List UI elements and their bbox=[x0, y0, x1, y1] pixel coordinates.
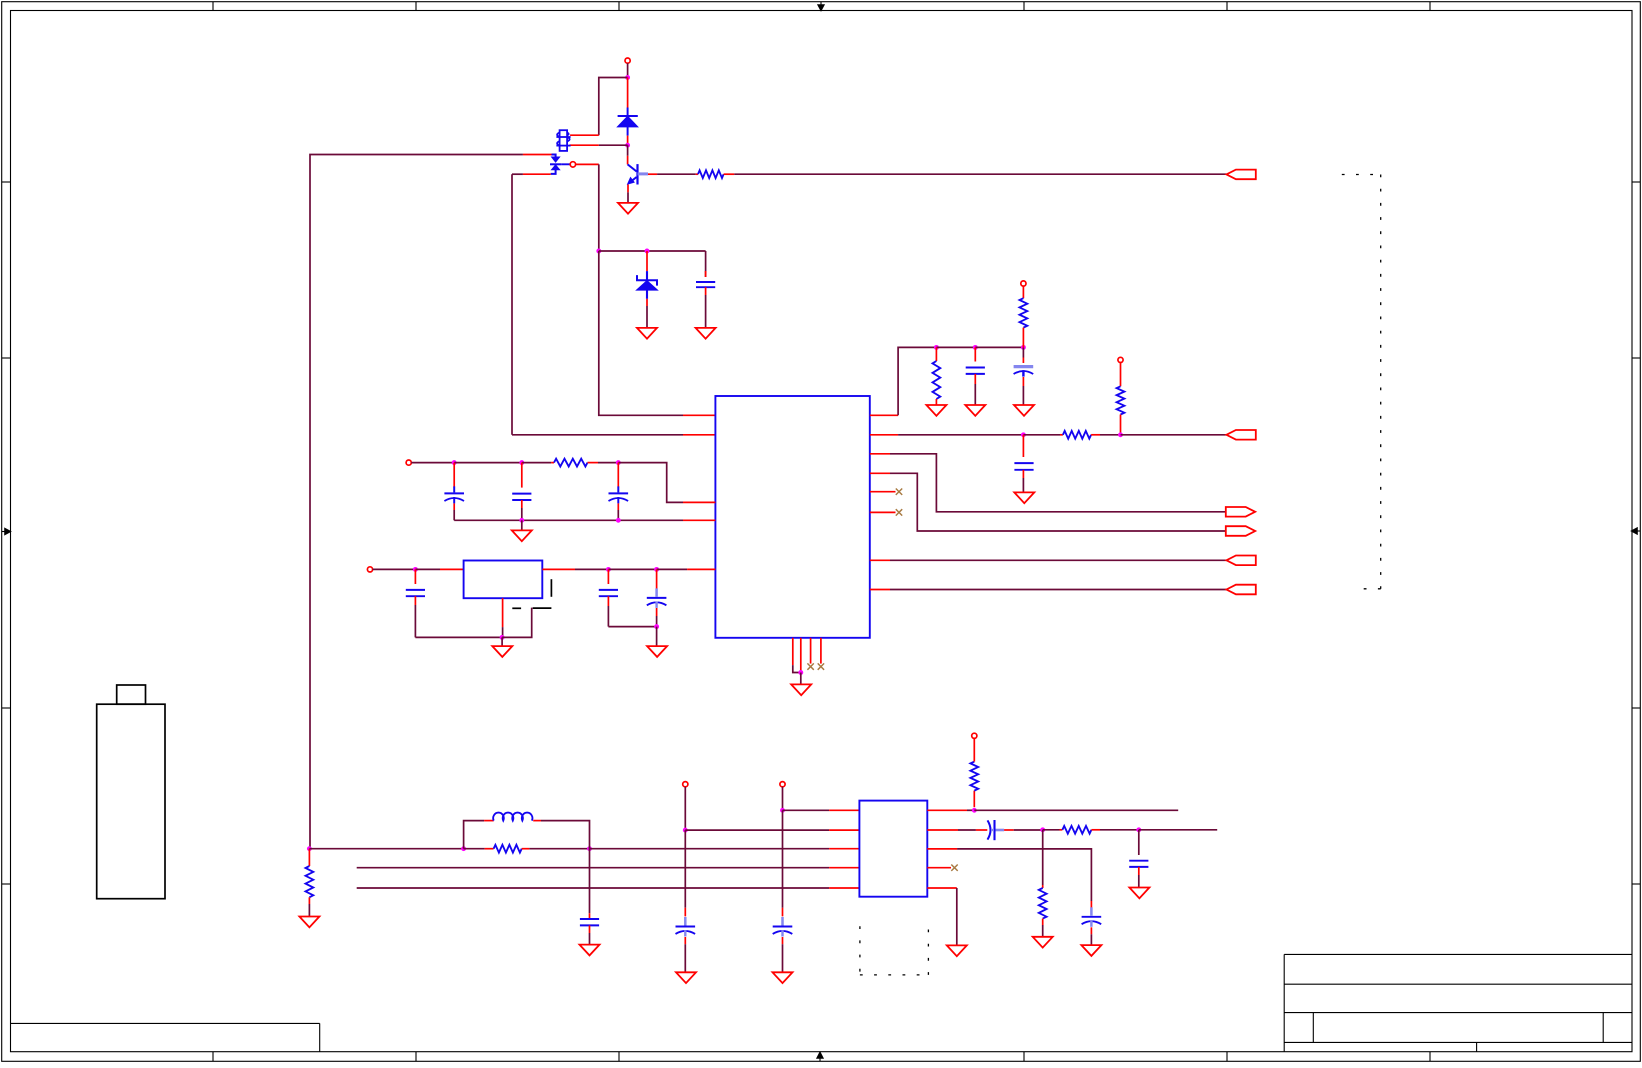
wire J10 to regulator VR1 bbox=[415, 568, 440, 570]
node J8 bbox=[519, 518, 524, 523]
wire C14 to node J27 bbox=[1014, 829, 1043, 831]
node J11 bbox=[606, 567, 611, 572]
wire TVS top net to far-left rail bbox=[310, 155, 523, 849]
node J7 bbox=[616, 460, 621, 465]
node J25 bbox=[780, 808, 785, 813]
capacitor C12 bbox=[684, 830, 686, 908]
wire U1 pin r8 to port PT6 bbox=[870, 589, 890, 591]
black tab mark 2 bbox=[533, 607, 552, 609]
ground GND11 bbox=[1014, 492, 1034, 503]
wire cap bottom rail to U1 pin 4 bbox=[454, 519, 683, 521]
wire J24 to U2 pin 2 bbox=[685, 829, 829, 831]
wire U2 pin r2 to C14 bbox=[927, 829, 958, 831]
wire R2 to node J7 bbox=[598, 462, 618, 464]
common-mode choke L1 bbox=[560, 130, 568, 151]
power port P5 bbox=[1118, 357, 1123, 362]
wire P1 to node bbox=[627, 63, 629, 77]
IC U2 bbox=[859, 801, 927, 897]
port PT3 bbox=[1226, 507, 1255, 517]
node J2 bbox=[625, 143, 630, 148]
ground GND19 bbox=[947, 945, 967, 956]
U1 no-connect pin r5 bbox=[870, 491, 896, 493]
resistor R3 bbox=[935, 347, 937, 361]
wire U2 pin r3 net bbox=[927, 848, 957, 850]
wire U1 pin r3 to port PT3 bbox=[870, 453, 890, 455]
node J27 bbox=[1040, 827, 1045, 832]
node J3 zener net bbox=[596, 249, 601, 254]
wire R1 to port PT1 bbox=[734, 173, 1226, 175]
power port P2 bbox=[406, 460, 411, 465]
wire bus line 1 bbox=[309, 848, 463, 850]
node J15 bbox=[798, 670, 803, 675]
wire J19 to R6 bbox=[1023, 434, 1060, 436]
regulator VR1 bbox=[464, 561, 543, 599]
wire TVS bottom pin going left to rail bbox=[523, 173, 551, 175]
node J9 bbox=[616, 518, 621, 523]
power port P7 bbox=[780, 782, 785, 787]
wire zener node to U1 pin 1 bbox=[599, 251, 683, 415]
capacitor C15 bbox=[1138, 830, 1140, 855]
node J19 bbox=[1021, 432, 1026, 437]
node J12 bbox=[654, 567, 659, 572]
power port P1 bbox=[625, 58, 630, 63]
wire bus line 3 to U2 pin 5 bbox=[357, 887, 829, 889]
wire U2 pin r1 net bbox=[927, 809, 967, 811]
wire Q1 base to resistor R1 bbox=[648, 173, 657, 175]
wire U1 pin r1 up to RC rail bbox=[870, 414, 898, 416]
node J21 bbox=[307, 846, 312, 851]
capacitor C3 bbox=[521, 463, 523, 488]
ground GND12 bbox=[299, 917, 319, 928]
wire C6 to node J14 bbox=[608, 626, 656, 628]
U1 bottom no-connect pin 3 bbox=[810, 638, 812, 664]
wire J16 to J17 bbox=[936, 346, 975, 348]
capacitor C10 bbox=[1022, 435, 1024, 457]
wire R6 to node J20 bbox=[1100, 434, 1121, 436]
wire J26 right open end bbox=[974, 809, 1178, 811]
resistor R10 bbox=[1043, 829, 1060, 831]
ground GND17 bbox=[1129, 888, 1149, 899]
node J1 bbox=[625, 75, 630, 80]
wire R7 to ground bbox=[308, 904, 310, 917]
wire J11 to J12 bbox=[608, 568, 656, 570]
U2 no-connect pin r4 bbox=[927, 867, 951, 869]
wire C1 to ground bbox=[705, 295, 707, 328]
wire J5 to J6 bbox=[454, 462, 522, 464]
wire U1 pin r2 net bbox=[870, 434, 898, 436]
U1 bottom no-connect pin 4 bbox=[820, 638, 822, 664]
ground GND13 bbox=[580, 945, 600, 956]
node J22 bbox=[461, 846, 466, 851]
diode D1 bbox=[627, 78, 629, 108]
wire VR1 out to node J11 bbox=[542, 568, 575, 570]
node J24 bbox=[683, 828, 688, 833]
resistor R6 bbox=[1060, 434, 1063, 436]
ground GND15 bbox=[773, 972, 793, 983]
wire TVS center to zener node bbox=[576, 163, 599, 165]
wire J20 to port PT2 bbox=[1121, 434, 1227, 436]
wire P3 to node J10 bbox=[373, 568, 416, 570]
ground GND1 bbox=[618, 203, 638, 214]
black tab mark 3 bbox=[550, 579, 552, 597]
node J13 bbox=[500, 635, 505, 640]
node J14 bbox=[654, 624, 659, 629]
node J16 bbox=[934, 345, 939, 350]
capacitor C9 bbox=[1022, 347, 1024, 357]
capacitor C5 bbox=[414, 569, 416, 584]
wire J8 to ground bbox=[521, 520, 523, 530]
wire J6 to R2 bbox=[522, 462, 551, 464]
capacitor C2 bbox=[453, 463, 455, 488]
resistor R5 bbox=[1120, 363, 1122, 387]
capacitor C16 bbox=[1090, 901, 1092, 908]
VR1 ground pin wire bbox=[502, 598, 504, 627]
node J10 bbox=[413, 567, 418, 572]
wire J7 to U1 pin 3 bbox=[618, 463, 683, 503]
ground GND10 bbox=[1014, 405, 1034, 416]
wire J12 to U1 pin 5 bbox=[657, 568, 688, 570]
wire U1 pin r4 to port PT4 bbox=[870, 472, 890, 474]
wire P7 down bbox=[782, 787, 784, 811]
port PT6 bbox=[1226, 585, 1255, 595]
ground GND6 bbox=[647, 646, 667, 657]
node J17 bbox=[973, 345, 978, 350]
ground GND4 bbox=[512, 530, 532, 541]
battery BT1 bbox=[97, 704, 165, 899]
node J4 bbox=[645, 249, 650, 254]
capacitor C1 bbox=[705, 251, 707, 277]
ground GND8 bbox=[926, 405, 946, 416]
wire zener node rail bbox=[599, 250, 706, 252]
ground GND9 bbox=[965, 405, 985, 416]
wire bus line 2 to U2 pin 4 bbox=[357, 867, 829, 869]
dashed outline box right bbox=[1342, 174, 1381, 176]
dashed outline box bottom bbox=[859, 926, 861, 975]
port PT2 bbox=[1226, 430, 1255, 440]
ground GND18 bbox=[1081, 945, 1101, 956]
resistor R7 bbox=[308, 849, 310, 866]
port PT1 bbox=[1226, 170, 1255, 180]
wire J15 to ground bbox=[800, 673, 802, 685]
capacitor C4 bbox=[617, 463, 619, 488]
wire U2 pin r5 to ground bbox=[927, 887, 957, 889]
node J5 bbox=[452, 460, 457, 465]
wire R10 to node J28 bbox=[1100, 829, 1139, 831]
node J28 bbox=[1136, 827, 1141, 832]
wire J1 left-down to choke L1 top pin bbox=[599, 78, 628, 136]
U1 no-connect pin r6 bbox=[870, 511, 896, 513]
wire J28 right open end bbox=[1139, 829, 1217, 831]
capacitor C14 horizontal bbox=[976, 829, 987, 831]
wire J13 to ground bbox=[501, 637, 503, 646]
power port P6 bbox=[683, 782, 688, 787]
TVS dual diode D2 bbox=[523, 154, 552, 156]
capacitor C11 bbox=[589, 849, 591, 914]
resistor R1 bbox=[696, 173, 698, 175]
power port P3 bbox=[367, 567, 372, 572]
bottom rail of VR1 filter bbox=[415, 636, 502, 638]
capacitor C6 bbox=[607, 569, 609, 584]
node J23 bbox=[587, 846, 592, 851]
wire P6 down bbox=[684, 787, 686, 830]
ground GND14 bbox=[676, 972, 696, 983]
node J26 bbox=[972, 808, 977, 813]
resistor R8 bbox=[464, 848, 485, 850]
capacitor C13 bbox=[782, 810, 784, 908]
wire J17 to J18 bbox=[975, 346, 1023, 348]
ground GND7 bbox=[791, 684, 811, 695]
resistor R4 pull-up bbox=[1022, 286, 1024, 298]
transistor Q1 bbox=[627, 145, 629, 156]
wire J13 tab loop bbox=[502, 608, 532, 638]
U1 bottom pin 1 wire bbox=[792, 638, 794, 665]
IC U1 bbox=[715, 396, 869, 638]
inductor L2 parallel path bbox=[464, 821, 485, 849]
wire Q1 emitter to ground bbox=[627, 185, 629, 193]
wire D3 to ground bbox=[646, 306, 648, 328]
resistor R9 bbox=[973, 791, 975, 808]
zener diode D3 bbox=[646, 251, 648, 271]
ground GND5 bbox=[492, 646, 512, 657]
wire U1 pin r7 to port PT5 bbox=[870, 559, 890, 561]
wire bus line 1 to U2 pin 3 bbox=[590, 848, 830, 850]
resistor R11 bbox=[1042, 830, 1044, 885]
U1 bottom pin 2 wire bbox=[800, 638, 802, 673]
power port P8 bbox=[972, 733, 977, 738]
capacitor C8 bbox=[974, 347, 976, 361]
wire J14 to ground bbox=[656, 627, 658, 647]
node J18 bbox=[1021, 345, 1026, 350]
wire choke L1 bottom pin to J2 bbox=[570, 144, 599, 146]
TVS center pin circle bbox=[570, 162, 575, 167]
wire J25 to U2 pin 1 bbox=[783, 809, 830, 811]
port PT4 bbox=[1226, 526, 1255, 536]
power port P4 bbox=[1021, 281, 1026, 286]
node J6 bbox=[519, 460, 524, 465]
ground GND16 bbox=[1033, 937, 1053, 948]
long left rail wire to bottom section bbox=[511, 174, 513, 435]
node J20 bbox=[1118, 432, 1123, 437]
wire left rail to U1 pin 2 bbox=[512, 434, 683, 436]
ground GND2 bbox=[637, 328, 657, 339]
ground GND3 bbox=[696, 328, 716, 339]
port PT5 bbox=[1226, 556, 1255, 566]
black tab mark 1 bbox=[512, 607, 521, 609]
wire P2 net bbox=[411, 462, 454, 464]
capacitor C7 bbox=[656, 569, 658, 592]
resistor R2 bbox=[551, 462, 554, 464]
